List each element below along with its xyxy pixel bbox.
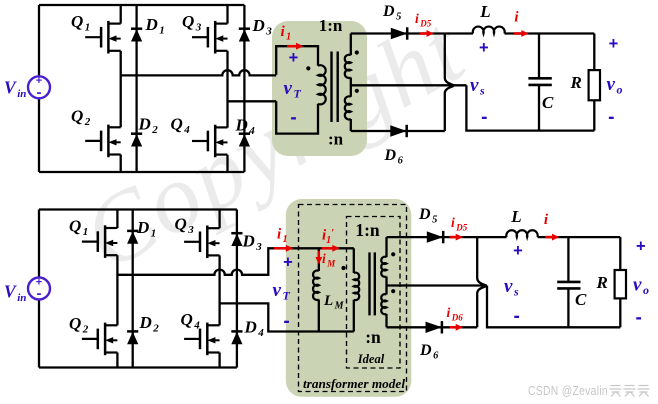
svg-text:L: L xyxy=(510,207,521,226)
svg-text:-: - xyxy=(283,311,289,332)
svg-text:-: - xyxy=(290,108,296,129)
svg-text:Ideal: Ideal xyxy=(357,352,385,366)
svg-text:+: + xyxy=(636,238,646,256)
svg-text:-: - xyxy=(481,107,487,128)
svg-text:R: R xyxy=(570,73,582,92)
svg-text:1:n: 1:n xyxy=(319,16,343,35)
svg-text:L: L xyxy=(479,2,490,21)
svg-text:-: - xyxy=(608,107,614,128)
svg-text:1:n: 1:n xyxy=(355,220,380,240)
svg-text::n: :n xyxy=(365,327,381,347)
svg-text:+: + xyxy=(479,39,489,57)
svg-text:+: + xyxy=(513,242,523,260)
svg-text:CSDN @Zevalin: CSDN @Zevalin xyxy=(528,383,608,398)
svg-text:C: C xyxy=(575,290,587,309)
svg-text:-: - xyxy=(636,308,642,329)
svg-text:-: - xyxy=(37,285,42,302)
svg-text:R: R xyxy=(596,273,608,292)
svg-text::n: :n xyxy=(328,130,344,149)
svg-text:+: + xyxy=(609,35,619,53)
svg-text:+: + xyxy=(289,49,299,67)
svg-text:transformer model: transformer model xyxy=(303,377,406,391)
svg-text:-: - xyxy=(514,306,520,327)
svg-text:-: - xyxy=(37,84,42,101)
svg-text:C: C xyxy=(542,93,554,112)
svg-text:+: + xyxy=(283,254,293,272)
